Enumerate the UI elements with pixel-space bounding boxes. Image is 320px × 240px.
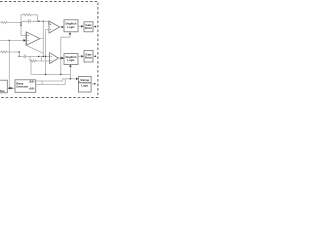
op-amp U1 error amplifier <box>26 32 40 46</box>
arrowhead into Deglitch 2 <box>62 57 64 60</box>
arrowhead into Deglitch Logic 1 <box>62 26 64 29</box>
wire hysteresis input from left edge with resistor R3 <box>0 51 19 57</box>
wire non-inverting input from left edge <box>0 39 24 41</box>
wire Deglitch 2 to Gate Drive 2 <box>78 55 82 57</box>
node A junction dots <box>20 21 44 26</box>
wire horizontal net y74 <box>31 61 70 79</box>
op-amp U1 left edge accent <box>25 32 27 45</box>
hysteresis resistor R4 detour <box>30 56 50 62</box>
Ramp Generator box <box>15 80 36 93</box>
wire ramp vertical to comparator 1 <box>46 30 49 75</box>
junction dots on y74 net <box>45 74 62 76</box>
wire Gate Drive 1 output pin <box>93 26 95 28</box>
svg-text:Drive: Drive <box>85 56 92 60</box>
pin dot middle right <box>95 55 97 57</box>
comparator U3 (hysteretic) <box>50 53 59 64</box>
wire comparator 2 top input line with capacitor C2 <box>19 55 49 59</box>
svg-text:Logic: Logic <box>67 25 75 29</box>
IC boundary dashed border <box>0 1 98 97</box>
Gate Drive 1 box <box>84 22 93 32</box>
ramp output wires to startup net <box>36 79 65 85</box>
wire Gate Drive 2 output pin <box>93 55 95 57</box>
Gate Drive 2 box <box>84 51 93 63</box>
svg-text:Drive: Drive <box>85 26 92 30</box>
arrowhead into Gate Drive 1 <box>81 25 83 28</box>
arrowhead right into ramp box <box>11 87 14 89</box>
wire from comparator 2 output up into Deglitch 1 bottom <box>61 34 70 37</box>
junction dots comparator 2 input line <box>38 56 46 58</box>
arrowhead into Gate Drive 2 <box>81 55 83 58</box>
sawtooth waveform glyph 2 <box>29 88 35 90</box>
feedback capacitor C1 bottom branch <box>21 19 38 23</box>
svg-text:Logic: Logic <box>81 84 88 87</box>
arrowhead up into Deglitch 2 <box>69 65 72 67</box>
arrowhead up into Deglitch 1 <box>69 32 72 34</box>
wire vertical comparator-2 output net <box>60 37 62 74</box>
feedback network: resistor R2 top branch <box>21 14 37 22</box>
sawtooth waveform glyph 1 <box>29 81 35 83</box>
wire down from + line to bottom boxes <box>8 40 10 88</box>
Startup Protection Logic box <box>79 76 92 92</box>
bidirectional wire between bottom boxes <box>7 87 15 89</box>
arrow into op-amp + input <box>23 39 26 42</box>
svg-text:Bias: Bias <box>0 90 5 93</box>
comparator U2 polarity marks <box>50 24 52 30</box>
Deglitch Logic 1 box <box>64 20 78 32</box>
Deglitch Logic 2 box <box>64 54 78 65</box>
node line to comparator top input <box>38 21 50 24</box>
wire op-amp output up to node <box>40 21 44 56</box>
arrowhead left into bias box <box>8 87 11 89</box>
junction dot at startup feed <box>70 78 72 80</box>
wire comparator 1 output to Deglitch Logic 1 <box>60 26 62 28</box>
op-amp U1 input polarity marks <box>27 35 29 41</box>
pin dot bottom right <box>94 83 96 85</box>
junction dots on hysteresis input <box>18 51 20 57</box>
pin dot top right <box>95 26 97 28</box>
wire FB input with resistor R1 <box>0 21 20 23</box>
comparator U2 (PWM) <box>49 21 60 33</box>
wire inverting input vertical <box>21 23 26 36</box>
wire diagonal from op-amp corner <box>26 45 43 53</box>
arrowhead into Startup box <box>76 78 78 81</box>
wire Startup output pin <box>91 83 95 85</box>
wire Deglitch 1 to Gate Drive 1 <box>78 25 82 27</box>
wire into Startup logic <box>63 78 77 80</box>
svg-text:Logic: Logic <box>67 58 75 62</box>
junction dot on comparator 2 output <box>60 57 62 59</box>
junction dot on + line <box>9 40 11 42</box>
wire comparator 2 output to Deglitch 2 <box>58 57 61 59</box>
left bottom box (bias) <box>0 80 7 93</box>
wire up into Deglitch 2 bottom <box>69 67 71 75</box>
svg-text:Generator: Generator <box>16 86 28 89</box>
comparator U3 polarity marks <box>50 56 51 61</box>
